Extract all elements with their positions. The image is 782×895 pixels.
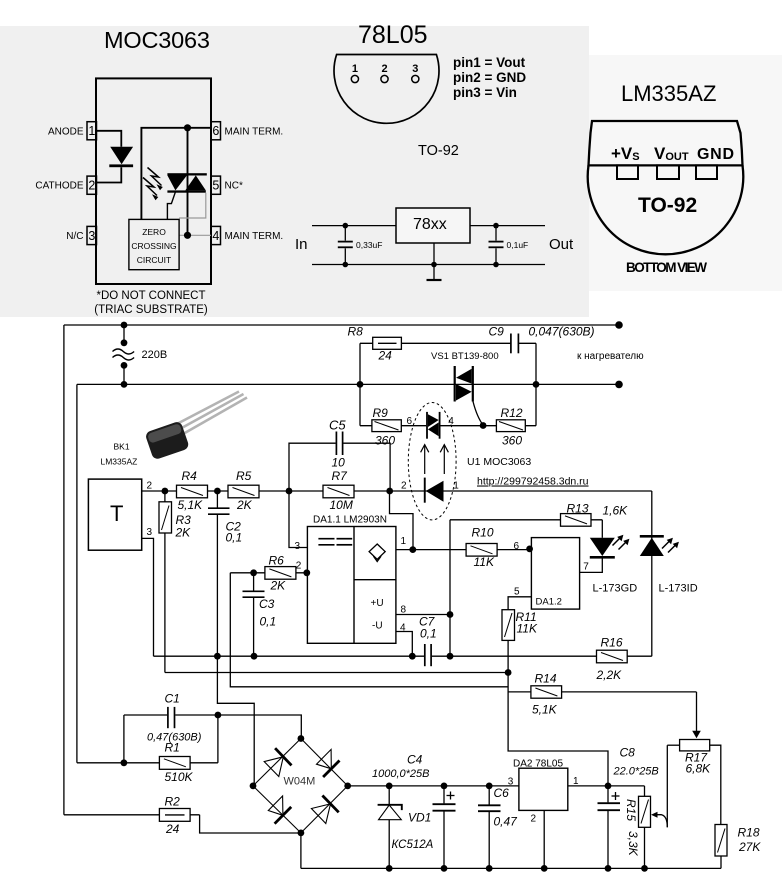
svg-text:0,1: 0,1 [260, 615, 277, 629]
svg-text:MAIN TERM.: MAIN TERM. [225, 126, 284, 137]
capacitor 0,33uF [344, 226, 346, 241]
svg-text:3,3K: 3,3K [626, 831, 640, 857]
svg-text:0,1: 0,1 [226, 531, 243, 545]
resistor R6 [265, 567, 296, 580]
wire VD1 stubs [388, 786, 390, 805]
wire LED to pin2 [97, 167, 122, 182]
svg-text:2: 2 [381, 63, 387, 75]
resistor R16 [597, 650, 628, 663]
DA1.1 output diamond [369, 544, 385, 562]
LED L-173ID [640, 535, 679, 556]
wire pin4 ground [396, 632, 412, 657]
wire left trunk 1 [63, 325, 65, 815]
wire rectified + line [348, 785, 645, 787]
svg-text:1: 1 [352, 63, 358, 75]
svg-text:22.0*25В: 22.0*25В [613, 766, 659, 778]
wire C3 stubs [253, 573, 255, 591]
bridge diode D2 (top-right edge) [317, 749, 340, 777]
svg-text:2: 2 [296, 561, 302, 572]
wire R3 vertical [164, 491, 166, 673]
svg-text:R8: R8 [348, 325, 364, 339]
wire C4 stubs [443, 786, 445, 804]
svg-text:2: 2 [401, 481, 407, 492]
footnote [94, 290, 208, 316]
svg-text:2: 2 [147, 481, 153, 492]
svg-text:4: 4 [400, 623, 406, 634]
svg-text:5: 5 [514, 587, 520, 598]
zener VD1 [378, 805, 402, 820]
regulator box 78xx [396, 208, 470, 243]
bridge diode D4 (bottom-right edge) [311, 796, 338, 824]
gray line circuit box to pin4 [179, 234, 211, 236]
svg-text:C4: C4 [407, 753, 423, 767]
wire C1 line to bridge top [124, 714, 167, 716]
wire DA1.1 output line [396, 549, 532, 551]
svg-text:2K: 2K [270, 579, 287, 593]
wire C6 stubs [488, 786, 490, 805]
capacitor C7 [425, 644, 431, 666]
wire R1 right up to C1 node [217, 715, 219, 763]
pin 6 box [211, 122, 221, 140]
resistor R12 [496, 420, 525, 432]
svg-text:0,47: 0,47 [494, 815, 519, 829]
svg-text:R4: R4 [182, 469, 198, 483]
svg-text:L-173ID: L-173ID [659, 583, 698, 595]
wire pin1 to LED [97, 131, 122, 147]
svg-text:6: 6 [212, 124, 219, 138]
wire bottom [312, 264, 545, 266]
svg-text:DA1.2: DA1.2 [536, 597, 562, 608]
wire pin6 to internal [141, 128, 211, 220]
svg-text:pin1 = Vout: pin1 = Vout [453, 55, 526, 70]
wire +5V vertical [449, 520, 451, 656]
svg-text:8: 8 [401, 605, 407, 616]
C8 plus sign [612, 792, 620, 800]
svg-text:1: 1 [453, 481, 459, 492]
svg-text:5,1K: 5,1K [178, 498, 204, 512]
wire pin8 supply [396, 614, 450, 616]
resistor R5 [228, 485, 259, 498]
wire R17 left [667, 744, 679, 746]
regulator DA2 box [519, 768, 568, 810]
wire bridge diamond [253, 739, 348, 833]
svg-text:L-173GD: L-173GD [593, 583, 638, 595]
wire bottom rail [301, 867, 721, 869]
resistor R14 [531, 686, 562, 698]
pin circles [351, 75, 419, 82]
svg-text:3: 3 [88, 229, 95, 243]
wire R15 wiper to R17 left [657, 815, 668, 828]
svg-text:MOC3063: MOC3063 [104, 27, 210, 53]
wire triac gate [473, 402, 483, 426]
wire R15 bottom [644, 827, 646, 868]
svg-text:11K: 11K [517, 622, 538, 636]
svg-text:78xx: 78xx [413, 216, 447, 233]
pin legend [453, 55, 526, 100]
svg-text:+U: +U [371, 598, 384, 609]
svg-text:5: 5 [212, 179, 219, 193]
wire R1 line [77, 762, 218, 764]
svg-text:1000,0*25В: 1000,0*25В [372, 768, 430, 780]
svg-text:КС512А: КС512А [392, 839, 434, 851]
wire top mains rail [64, 324, 619, 326]
LED diode inside MOC [110, 147, 133, 164]
svg-text:220В: 220В [142, 349, 168, 361]
wire R14 to R17 wiper [696, 692, 698, 732]
svg-text:NC*: NC* [225, 181, 243, 192]
wire in top [312, 225, 396, 227]
svg-text:W04M: W04M [284, 776, 316, 788]
svg-text:24: 24 [378, 349, 393, 363]
svg-text:ZERO: ZERO [142, 227, 166, 237]
svg-text:LM335AZ: LM335AZ [621, 81, 716, 106]
U1 LED [424, 478, 444, 503]
svg-text:GND: GND [697, 146, 734, 163]
resistor R11 [502, 610, 515, 641]
wire ground rail A [154, 655, 425, 657]
svg-text:5,1K: 5,1K [532, 703, 558, 717]
svg-text:*DO NOT CONNECT: *DO NOT CONNECT [96, 290, 205, 302]
wire C8 stubs [607, 786, 609, 803]
resistor R1 [159, 757, 190, 770]
wire right vertical through L-173ID [651, 491, 653, 656]
node triac top [184, 124, 191, 131]
svg-text:4: 4 [448, 416, 454, 427]
wire T pin3 to ground rail [142, 538, 154, 656]
svg-text:R15: R15 [624, 799, 638, 821]
wire R13 feed [450, 519, 602, 521]
svg-text:TO-92: TO-92 [418, 143, 459, 159]
wire R9 line to MOC pin6 [360, 425, 426, 427]
capacitor C2 [208, 508, 230, 514]
LED L-173GD [590, 535, 630, 559]
svg-text:1,6K: 1,6K [603, 504, 629, 518]
triac main vertical [187, 128, 189, 236]
svg-text:27K: 27K [738, 840, 761, 854]
svg-text:R7: R7 [332, 469, 349, 483]
svg-text:C3: C3 [259, 597, 275, 611]
wire out top [470, 225, 545, 227]
IC body MOC3063 [96, 78, 211, 284]
wire DA2 pin2 down [543, 810, 545, 868]
svg-text:(TRIAC SUBSTRATE): (TRIAC SUBSTRATE) [94, 304, 208, 316]
svg-text:78L05: 78L05 [358, 21, 428, 49]
wire R8 C9 snubber branch [359, 343, 361, 425]
svg-text:24: 24 [165, 822, 180, 836]
svg-text:U1 MOC3063: U1 MOC3063 [467, 456, 531, 468]
wire 220V source stubs [123, 325, 125, 343]
comparator DA1.1 box [307, 527, 396, 644]
svg-text:MAIN TERM.: MAIN TERM. [225, 231, 284, 242]
svg-text:TO-92: TO-92 [638, 194, 697, 217]
capacitor C6 [478, 805, 501, 811]
svg-text:-U: -U [372, 621, 383, 632]
wire sensor line [142, 490, 424, 492]
svg-text:11K: 11K [474, 555, 495, 569]
svg-text:C1: C1 [165, 692, 180, 706]
svg-text:C9: C9 [489, 325, 505, 339]
pin 5 box [211, 176, 221, 194]
svg-text:R18: R18 [738, 826, 760, 840]
wire L-173GD cathode to pin7 [580, 558, 603, 572]
wire C2 branch and down to C1 [216, 491, 218, 508]
wire left trunk 2 [76, 384, 78, 762]
comparator DA1.2 box [531, 538, 579, 610]
resistor R7 [323, 485, 354, 498]
datasheet scan light-gray band [0, 26, 589, 317]
svg-text:2K: 2K [175, 526, 192, 540]
wire R6 branch down rail C [230, 573, 508, 687]
svg-text:VD1: VD1 [408, 811, 431, 825]
opto light arrows [143, 168, 162, 196]
svg-text:CROSSING: CROSSING [131, 241, 176, 251]
schematic labels [101, 349, 698, 825]
svg-text:Out: Out [549, 236, 574, 253]
svg-text:2: 2 [531, 814, 537, 825]
resistor R9 [372, 420, 401, 432]
capacitor C4 [433, 804, 456, 811]
svg-text:R5: R5 [236, 469, 252, 483]
pin 3 box [87, 226, 97, 244]
svg-text:6: 6 [407, 416, 413, 427]
gray line bar to circuit box [179, 193, 206, 218]
svg-text:R12: R12 [501, 406, 523, 420]
svg-text:0,1: 0,1 [420, 627, 437, 641]
svg-text:pin3 = Vin: pin3 = Vin [453, 85, 517, 100]
zero crossing text [131, 227, 176, 265]
svg-text:N/C: N/C [66, 231, 83, 242]
resistor R18 [715, 825, 727, 857]
wire R6 line [230, 572, 307, 574]
svg-text:VS1 BT139-800: VS1 BT139-800 [431, 351, 499, 362]
svg-text:R13: R13 [567, 502, 589, 516]
svg-text:0,1uF: 0,1uF [507, 240, 529, 250]
svg-text:2: 2 [88, 179, 95, 193]
pin names [611, 144, 734, 163]
TO-92 bottom view outline LM335AZ [589, 121, 743, 165]
svg-text:2,2K: 2,2K [596, 668, 623, 682]
zero crossing circuit box [129, 219, 179, 269]
wire R14 line [508, 691, 696, 693]
svg-text:T: T [110, 501, 123, 526]
svg-text:LM335AZ: LM335AZ [101, 457, 138, 467]
svg-text:7: 7 [583, 562, 589, 573]
capacitor C3 [243, 591, 265, 597]
C4 plus sign [447, 792, 455, 800]
svg-text:0,047(630В): 0,047(630В) [529, 325, 595, 339]
resistor R3 [159, 502, 172, 533]
pin number labels [88, 124, 219, 243]
wire C5 branch [289, 443, 336, 491]
svg-text:C6: C6 [494, 786, 510, 800]
TO-92 package outline 78L05 [334, 55, 439, 124]
svg-text:10: 10 [332, 456, 346, 470]
svg-text:10M: 10M [330, 498, 353, 512]
svg-text:3: 3 [147, 527, 153, 538]
pin 2 box [87, 176, 97, 194]
pin numbers [352, 63, 419, 75]
pin tabs [617, 165, 717, 179]
trimmer R15 [639, 796, 658, 827]
svg-text:360: 360 [502, 434, 522, 448]
capacitor C9 [511, 334, 519, 354]
capacitor C1 [168, 707, 175, 728]
svg-text:R9: R9 [373, 406, 389, 420]
svg-text:R6: R6 [269, 554, 285, 568]
U1 light arrows [421, 445, 449, 475]
ground stub [433, 243, 435, 280]
sensor box T [88, 479, 141, 550]
svg-text:BK1: BK1 [114, 442, 130, 452]
svg-text:DA2 78L05: DA2 78L05 [513, 759, 563, 770]
svg-text:ANODE: ANODE [48, 126, 84, 137]
triac symbol inside MOC [167, 173, 206, 175]
svg-text:3: 3 [295, 541, 301, 552]
wire pin5 to R11 [508, 597, 531, 610]
wire comparator pin3 input [289, 491, 307, 548]
DA1.1 input marks [318, 539, 352, 545]
svg-text:к нагревателю: к нагревателю [577, 351, 644, 362]
svg-text:R1: R1 [165, 741, 180, 755]
svg-text:R16: R16 [601, 636, 623, 650]
transistor photo BK1 [144, 392, 247, 461]
svg-text:6: 6 [514, 541, 520, 552]
svg-text:3: 3 [412, 63, 418, 75]
wire bridge bottom to rail [300, 833, 302, 869]
svg-text:6,8K: 6,8K [686, 762, 712, 776]
resistor R4 [177, 485, 208, 498]
potentiometer R17 [680, 731, 710, 751]
wire R17 right to R18 [710, 745, 721, 824]
wire second mains rail [77, 383, 619, 385]
svg-text:1: 1 [401, 536, 407, 547]
pin name labels [35, 126, 283, 242]
bridge diode D1 (left-top edge) [264, 748, 291, 776]
triac VS1 [454, 366, 474, 402]
svg-text:R10: R10 [472, 526, 494, 540]
svg-text:4: 4 [212, 229, 219, 243]
svg-text:C8: C8 [620, 746, 636, 760]
pin 1 box [87, 122, 97, 140]
wire output jog to sensor line [390, 491, 414, 550]
resistor R2 [159, 809, 190, 822]
optocoupler U1 ellipse [408, 403, 456, 520]
svg-text:R2: R2 [165, 795, 181, 809]
bridge diode D3 (left-bottom edge) [268, 796, 291, 824]
svg-text:510K: 510K [165, 770, 194, 784]
resistor R10 [466, 544, 497, 557]
svg-text:1: 1 [88, 124, 95, 138]
svg-text:In: In [295, 236, 308, 253]
wire C1 left vertical [123, 715, 125, 763]
capacitor 0,1uF [495, 226, 497, 241]
capacitor C8 [598, 803, 621, 810]
svg-text:CIRCUIT: CIRCUIT [137, 255, 171, 265]
svg-text:DA1.1 LM2903N: DA1.1 LM2903N [313, 515, 387, 526]
triac gate line [167, 191, 175, 220]
svg-text:BOTTOM VIEW: BOTTOM VIEW [626, 260, 707, 275]
node pin4 [184, 232, 191, 239]
wire rail B [165, 672, 508, 674]
svg-text:http://299792458.3dn.ru: http://299792458.3dn.ru [477, 476, 589, 488]
AC source 220V squiggle [113, 349, 135, 360]
svg-text:C5: C5 [329, 418, 346, 433]
capacitor C5 [336, 432, 342, 456]
svg-text:CATHODE: CATHODE [35, 181, 83, 192]
svg-text:360: 360 [375, 434, 395, 448]
pin 4 box [211, 226, 221, 244]
svg-text:R14: R14 [535, 672, 557, 686]
svg-text:pin2 = GND: pin2 = GND [453, 70, 526, 85]
U1 internal triac [426, 412, 440, 439]
junction dots [343, 223, 499, 268]
svg-text:0,33uF: 0,33uF [356, 240, 382, 250]
resistor R13 [561, 514, 592, 527]
resistor R8 [373, 337, 402, 349]
svg-text:1: 1 [573, 776, 579, 787]
wire R11 bottom down to DA2 output node [508, 640, 608, 786]
wire MOC pin4 to R12 [440, 425, 536, 427]
svg-text:2K: 2K [236, 498, 253, 512]
wire R2 line [64, 814, 200, 816]
